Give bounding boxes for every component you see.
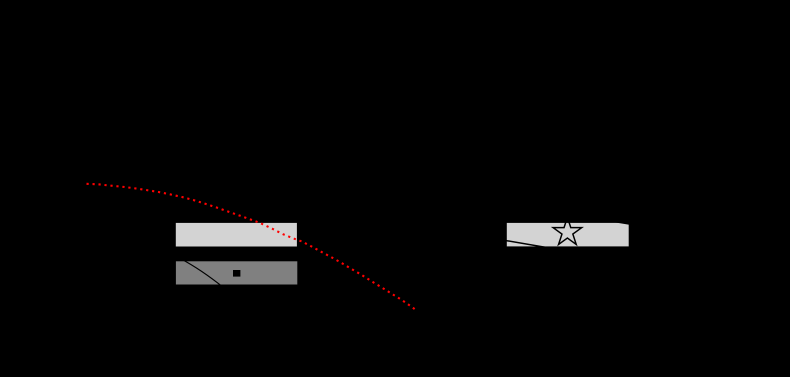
box B (left dark gray) [176,261,297,284]
red dotted curve [87,184,418,311]
star marker on box C [553,217,582,244]
black curve segment over box C bottom-left [498,239,575,252]
black curve segment over box B [181,259,224,288]
black square marker on box B [233,270,240,277]
box A (left light gray) [176,223,297,247]
black curve clipping box C top-right corner [603,219,642,226]
box C (right light gray) [507,223,629,247]
